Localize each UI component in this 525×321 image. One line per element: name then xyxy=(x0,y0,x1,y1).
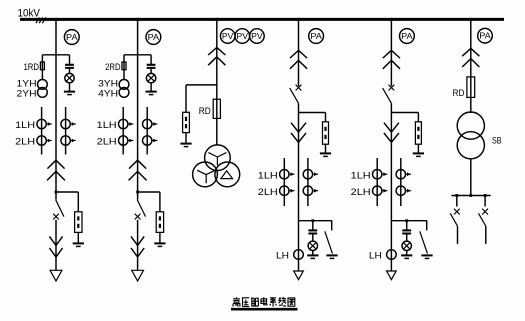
wire capacitor drop xyxy=(150,55,152,65)
drawout contact upper chevrons feeder 5 xyxy=(383,50,400,58)
bus 10kV xyxy=(20,18,504,21)
wire capacitor drop feeder 4 xyxy=(312,221,314,230)
svg-text:PV: PV xyxy=(237,32,249,41)
ground under arrester feeder 3 xyxy=(180,143,191,145)
junction capacitor branch feeder 5 xyxy=(405,219,408,222)
cable terminal arrow feeder 2 xyxy=(132,270,144,281)
svg-text:3YH: 3YH xyxy=(98,79,118,89)
surge arrester feeder 5 xyxy=(415,122,421,144)
ground under arrester feeder 4 xyxy=(320,152,331,154)
wire capacitor to lamp xyxy=(150,69,152,74)
discharge lamp feeder 5 xyxy=(402,241,411,250)
wire lamp to ground feeder 5 xyxy=(406,251,408,256)
fuse RD feeder 3 xyxy=(213,99,220,118)
junction switch/arrester node xyxy=(136,191,139,194)
wire CT column left feeder 5 xyxy=(376,158,378,206)
wire fuse drop xyxy=(123,55,125,80)
svg-text:2LH: 2LH xyxy=(351,187,371,198)
ground under arrester xyxy=(154,242,165,244)
wire CT column right feeder 4 xyxy=(307,158,309,206)
wire LV outgoing xyxy=(485,226,487,244)
junction LV middle xyxy=(469,194,472,197)
meter PA feeder 5 xyxy=(400,29,415,44)
svg-text:PA: PA xyxy=(310,32,322,41)
junction LV left xyxy=(455,194,458,197)
LV switch blade xyxy=(450,213,458,226)
current transformer 2LH row xyxy=(119,136,128,145)
cable terminal arrow feeder 1 xyxy=(50,270,62,281)
meter PA feeder 2 xyxy=(146,30,161,45)
wire arrester branch horizontal feeder 5 xyxy=(391,112,418,114)
svg-text:1YH: 1YH xyxy=(17,79,37,89)
drawout contact upper chevrons xyxy=(129,160,146,168)
ground under lamp xyxy=(146,91,157,93)
junction feeder 1 at bus xyxy=(55,18,58,21)
wire arrester drop xyxy=(77,192,79,212)
svg-text:4YH: 4YH xyxy=(98,88,118,98)
wire capacitor to lamp feeder 5 xyxy=(406,235,408,242)
svg-text:RD: RD xyxy=(453,88,465,99)
cable terminal arrow feeder 4 xyxy=(294,271,304,280)
drawout contact upper chevrons xyxy=(47,160,64,168)
ground under arrester xyxy=(73,242,84,244)
wire arrester to ground xyxy=(159,232,161,243)
wire PT branch horizontal xyxy=(124,54,151,56)
discharge lamp feeder 4 xyxy=(308,241,317,250)
surge arrester feeder 4 xyxy=(323,122,329,144)
svg-text:2YH: 2YH xyxy=(17,88,37,98)
wire lower junction horizontal feeder 5 xyxy=(391,220,427,222)
wire lamp to ground xyxy=(150,83,152,91)
junction feeder 6 at bus xyxy=(469,18,472,21)
junction feeder 5 at bus xyxy=(390,18,393,21)
wire arrester to ground feeder 4 xyxy=(325,144,327,153)
wire feeder 3 main drop xyxy=(216,19,218,145)
winding symbol delta bottom-right xyxy=(221,171,233,179)
drawout contact lower chevrons feeder 4 xyxy=(291,123,306,132)
current transformer LH feeder 5 xyxy=(387,250,397,260)
wire below switch xyxy=(137,220,139,271)
junction feeder 4 at bus xyxy=(297,18,300,21)
current transformer 1LH row xyxy=(37,119,46,128)
wire CT column right xyxy=(146,107,148,155)
ground under lamp feeder 5 xyxy=(401,254,412,256)
svg-text:RD: RD xyxy=(199,106,211,117)
discharge lamp xyxy=(65,73,74,82)
wire arrester branch horizontal xyxy=(138,191,160,193)
wire arrester drop feeder 5 xyxy=(417,113,419,122)
wire feeder 1 main drop xyxy=(55,19,57,200)
wire arrester branch horizontal feeder 4 xyxy=(299,112,326,114)
wire mid drop feeder 5 xyxy=(390,113,392,221)
svg-text:LH: LH xyxy=(369,250,382,261)
svg-text:1RD: 1RD xyxy=(24,62,40,72)
ground earthing switch feeder 4 xyxy=(326,254,337,256)
current transformer 1LH row feeder 4 xyxy=(280,170,289,179)
wire LV stub xyxy=(456,196,458,207)
earthing switch stub feeder 5 xyxy=(426,221,428,231)
surge arrester feeder 1 xyxy=(75,212,82,233)
disconnect switch blade feeder 2 xyxy=(137,200,145,217)
wire fuse drop xyxy=(41,55,43,80)
capacitor plates xyxy=(147,64,156,66)
switch contact x feeder 4 xyxy=(296,85,302,91)
wire CT column left xyxy=(122,107,124,155)
title underline xyxy=(231,308,298,311)
ground under arrester feeder 5 xyxy=(413,152,424,154)
drawout contact upper chevrons feeder 4 xyxy=(290,50,307,58)
current transformer 1LH row feeder 5 xyxy=(373,170,382,179)
fuse RD feeder 6 xyxy=(467,77,475,98)
switch contact x feeder 5 xyxy=(389,85,395,91)
current transformer 1LH row xyxy=(119,119,128,128)
bus hatch marks xyxy=(36,17,39,23)
winding symbol Y top xyxy=(208,153,226,166)
wire lamp to ground xyxy=(69,83,71,91)
transformer T1 three-winding xyxy=(205,145,231,171)
meter PV 1 xyxy=(220,29,235,44)
wire lamp to ground feeder 4 xyxy=(312,251,314,256)
wire arrester drop feeder 3 xyxy=(185,85,187,112)
svg-text:2RD: 2RD xyxy=(105,62,121,72)
svg-text:PA: PA xyxy=(401,32,413,41)
discharge lamp xyxy=(146,73,155,82)
surge arrester feeder 2 xyxy=(156,212,163,233)
drawout contact chevrons feeder 3 xyxy=(208,48,225,56)
wire lower drop feeder 4 xyxy=(298,221,300,271)
winding symbol Y bottom-left xyxy=(197,170,215,183)
current transformer 2LH row feeder 4 xyxy=(280,186,289,195)
wire lower drop feeder 5 xyxy=(390,221,392,271)
current transformer 2LH row xyxy=(37,136,46,145)
svg-text:LH: LH xyxy=(276,250,289,261)
fuse 1RD xyxy=(40,62,44,70)
meter PV 3 xyxy=(250,29,265,44)
svg-text:PA: PA xyxy=(66,33,78,42)
junction feeder 2 at bus xyxy=(136,18,139,21)
surge arrester feeder 3 xyxy=(183,112,190,132)
meter PA feeder 6 xyxy=(478,28,493,43)
wire arrester to ground feeder 5 xyxy=(417,144,419,153)
junction capacitor branch feeder 4 xyxy=(311,219,314,222)
svg-text:PV: PV xyxy=(251,32,263,41)
svg-text:PA: PA xyxy=(148,33,160,42)
drawout contact lower chevrons xyxy=(49,236,62,245)
wire PT branch horizontal xyxy=(42,54,69,56)
svg-text:2LH: 2LH xyxy=(258,187,278,198)
ground under lamp xyxy=(64,91,75,93)
svg-text:PA: PA xyxy=(479,32,491,41)
voltage transformer 1YH/2YH xyxy=(38,80,48,90)
junction feeder 3 at bus xyxy=(215,18,218,21)
wire capacitor to lamp xyxy=(69,69,71,74)
meter PA feeder 1 xyxy=(64,30,79,45)
wire LV stub xyxy=(484,196,486,207)
switch contact x xyxy=(53,214,59,220)
meter PV 2 xyxy=(235,29,250,44)
disconnect switch blade feeder 4 xyxy=(290,88,299,103)
wire arrester drop feeder 4 xyxy=(325,113,327,122)
wire feeder 5 upper drop xyxy=(390,19,392,86)
wire arrester branch horizontal xyxy=(56,191,78,193)
earthing switch blade feeder 5 xyxy=(420,231,428,253)
transformer SB two-winding xyxy=(457,112,484,139)
svg-text:2LH: 2LH xyxy=(97,137,117,148)
wire switch to junction xyxy=(390,103,392,112)
junction arrester branch feeder 3 xyxy=(186,84,217,86)
LV distribution bar xyxy=(451,195,490,197)
title 高压配电系统图 (drawn glyphs) xyxy=(233,297,240,306)
ground earthing switch feeder 5 xyxy=(421,254,432,256)
junction LV right xyxy=(484,194,487,197)
LV switch contact x xyxy=(482,209,488,215)
capacitor plates feeder 4 xyxy=(308,229,317,231)
svg-text:SB: SB xyxy=(492,136,502,147)
svg-text:PV: PV xyxy=(222,32,234,41)
meter PA feeder 4 xyxy=(309,29,324,44)
LV switch contact x xyxy=(454,209,460,215)
wire lower junction horizontal feeder 4 xyxy=(299,220,332,222)
earthing switch stub feeder 4 xyxy=(331,221,333,231)
wire capacitor drop feeder 5 xyxy=(406,221,408,230)
wire switch to junction xyxy=(298,103,300,112)
wire transformer secondary drop xyxy=(470,159,472,196)
cable terminal arrow feeder 5 xyxy=(387,271,397,280)
disconnect switch blade feeder 5 xyxy=(383,88,392,103)
svg-text:1LH: 1LH xyxy=(15,120,35,131)
svg-text:1LH: 1LH xyxy=(258,170,278,181)
svg-text:1LH: 1LH xyxy=(97,120,117,131)
junction switch/arrester node xyxy=(55,191,58,194)
switch contact x xyxy=(135,214,141,220)
wire feeder 4 upper drop xyxy=(298,19,300,86)
wire feeder 2 main drop xyxy=(137,19,139,200)
wire capacitor drop xyxy=(69,55,71,65)
wire CT column right feeder 5 xyxy=(400,158,402,206)
wire LV outgoing xyxy=(457,226,459,244)
wire arrester to ground xyxy=(77,232,79,243)
wire CT column right xyxy=(65,107,67,155)
earthing switch blade feeder 4 xyxy=(325,231,333,253)
capacitor plates feeder 5 xyxy=(402,229,411,231)
svg-text:2LH: 2LH xyxy=(15,137,35,148)
current transformer 2LH row feeder 5 xyxy=(373,186,382,195)
wire arrester to ground feeder 3 xyxy=(185,133,187,144)
wire arrester drop xyxy=(159,192,161,212)
drawout contact lower chevrons feeder 5 xyxy=(384,123,399,132)
wire feeder 6 main drop xyxy=(470,19,472,113)
voltage transformer 3YH/4YH xyxy=(119,80,129,90)
svg-text:10kV: 10kV xyxy=(18,8,41,20)
capacitor plates xyxy=(65,64,74,66)
wire mid drop feeder 4 xyxy=(298,113,300,221)
fuse 2RD xyxy=(122,62,126,70)
wire CT column left xyxy=(41,107,43,155)
drawout contact chevrons feeder 6 xyxy=(462,48,479,56)
wire below switch xyxy=(55,220,57,271)
LV switch blade xyxy=(479,213,487,226)
svg-text:1LH: 1LH xyxy=(351,170,371,181)
wire capacitor to lamp feeder 4 xyxy=(312,235,314,242)
disconnect switch blade feeder 1 xyxy=(56,200,64,217)
current transformer LH feeder 4 xyxy=(294,250,304,260)
drawout contact lower chevrons xyxy=(131,236,144,245)
wire CT column left feeder 4 xyxy=(283,158,285,206)
ground under lamp feeder 4 xyxy=(307,254,318,256)
